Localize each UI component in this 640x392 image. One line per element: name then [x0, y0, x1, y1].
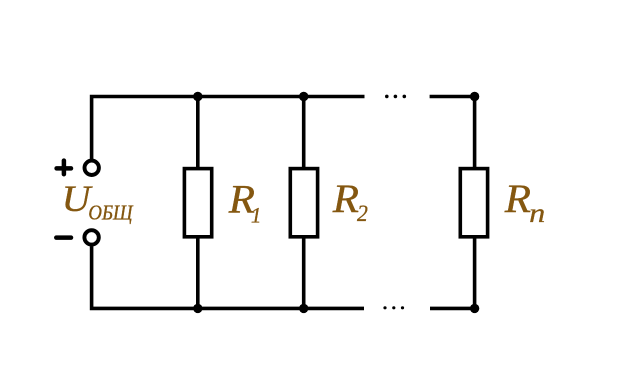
svg-text:n: n — [529, 197, 545, 228]
svg-text:2: 2 — [357, 200, 368, 226]
svg-text:ОБЩ: ОБЩ — [88, 202, 133, 225]
svg-text:1: 1 — [251, 203, 262, 228]
svg-text:R: R — [332, 176, 359, 220]
svg-text:R: R — [504, 176, 531, 220]
